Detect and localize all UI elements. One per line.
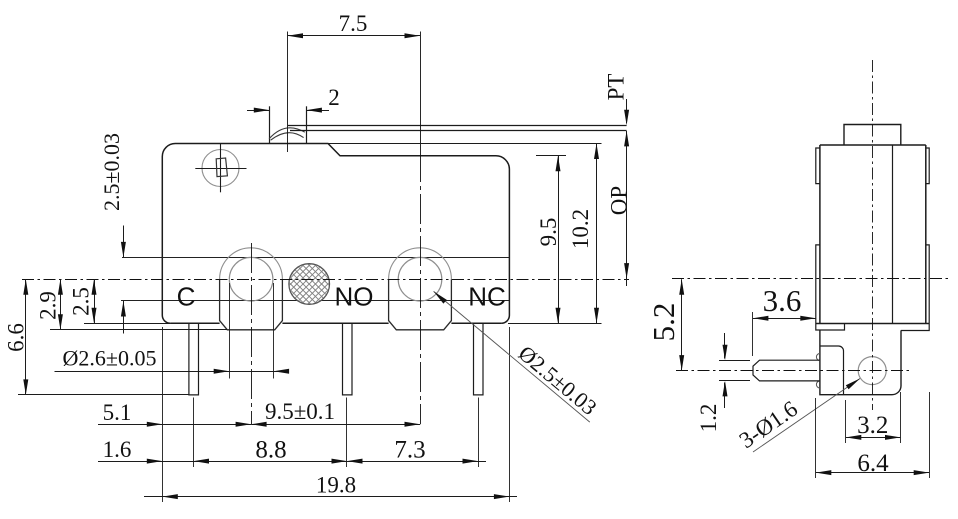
ext line rivet left edge — [229, 283, 231, 379]
dim 5.1 — [98, 424, 251, 426]
ext pin C center — [193, 398, 195, 468]
ext pin NC center — [478, 398, 480, 468]
ext line lobe bottom — [50, 329, 227, 331]
dim 10.2 vertical — [596, 144, 598, 324]
ext line body top right — [536, 155, 566, 157]
lever arm (free and operating position lines) — [288, 125, 627, 127]
pin NC — [474, 323, 484, 395]
pin NO — [343, 323, 353, 395]
dim 2.5 — [94, 279, 96, 323]
dim PT — [626, 99, 628, 123]
side tab upper left — [816, 148, 820, 184]
side tab lower right with lobe strip — [901, 245, 929, 331]
svg-text:9.5: 9.5 — [536, 218, 561, 247]
side bottom block — [820, 330, 901, 395]
dim 9.5 vertical — [558, 156, 560, 323]
dim 3.2 — [846, 437, 901, 439]
ext pin NO center — [346, 398, 348, 468]
svg-text:5.1: 5.1 — [103, 400, 132, 425]
dim 1.2 — [724, 333, 726, 359]
pin centerline — [676, 370, 910, 372]
body bottom edge segments — [170, 322, 219, 324]
svg-text:7.3: 7.3 — [394, 436, 425, 463]
svg-text:10.2: 10.2 — [568, 209, 593, 249]
crosshatched hole — [289, 264, 330, 305]
dim 2 — [247, 110, 269, 112]
dim 5.2 — [681, 279, 683, 370]
pin seat bumps — [816, 354, 820, 361]
dim 2.5+-0.03 (band height) — [123, 226, 125, 258]
plunger button — [269, 106, 271, 143]
svg-text:1.2: 1.2 — [696, 404, 721, 433]
side horizontal centerline — [672, 278, 951, 280]
dim 9.5+-0.1 — [251, 424, 420, 426]
svg-text:19.8: 19.8 — [316, 473, 356, 498]
ext line body top left level — [328, 143, 602, 145]
C vertical centerline — [251, 243, 253, 424]
terminal hole — [858, 357, 886, 385]
svg-text:3.2: 3.2 — [857, 412, 888, 439]
svg-text:NC: NC — [468, 282, 506, 312]
svg-text:PT: PT — [604, 74, 629, 101]
terminal lobe C — [220, 248, 283, 279]
side tab upper right — [926, 148, 929, 184]
svg-text:C: C — [177, 282, 196, 312]
side view body bottom edge — [816, 323, 929, 325]
side view pin — [753, 360, 820, 381]
ext line rivet right edge — [273, 283, 275, 379]
svg-text:NO: NO — [335, 282, 374, 312]
ext line pin bottom — [18, 394, 189, 396]
terminal lobe NO — [389, 248, 452, 279]
svg-text:2: 2 — [328, 85, 340, 110]
svg-text:2.5: 2.5 — [69, 287, 94, 316]
svg-text:3.6: 3.6 — [763, 283, 802, 318]
svg-text:6.6: 6.6 — [4, 323, 29, 352]
side view body — [820, 145, 926, 324]
dim 19.8 — [144, 496, 517, 498]
svg-text:Ø2.6±0.05: Ø2.6±0.05 — [63, 345, 157, 370]
svg-text:9.5±0.1: 9.5±0.1 — [265, 399, 335, 424]
horizontal centerline — [22, 279, 629, 281]
screw head — [202, 150, 239, 187]
pin C — [189, 323, 199, 395]
svg-text:OP: OP — [607, 186, 632, 215]
dims 1.6 / 8.8 / 7.3 — [98, 461, 486, 463]
dim 7.5 — [288, 35, 421, 37]
side vertical centerline — [872, 60, 874, 410]
dim dia2.6+-0.05 — [55, 371, 288, 373]
dim 6.4 — [816, 472, 929, 474]
NO vertical centerline — [420, 32, 422, 153]
terminal band bottom line — [121, 300, 298, 302]
ext pin tip — [752, 312, 754, 356]
dim 6.6 — [25, 279, 27, 395]
svg-text:5.2: 5.2 — [646, 303, 681, 342]
svg-text:8.8: 8.8 — [255, 436, 286, 463]
rivet circle C (dia 2.6) — [229, 257, 273, 301]
svg-text:7.5: 7.5 — [339, 11, 368, 36]
ext body right edge — [509, 327, 511, 502]
dim 2.9 — [60, 279, 62, 330]
side tab lower left with lobe strip — [816, 245, 845, 330]
ext body left edge — [162, 327, 164, 502]
dim OP — [624, 263, 629, 279]
side view inner edge — [892, 145, 894, 324]
rivet circle NO (dia 2.5) — [398, 257, 442, 301]
terminal band top line — [122, 257, 509, 259]
svg-text:2.5±0.03: 2.5±0.03 — [99, 133, 124, 211]
svg-text:2.9: 2.9 — [36, 291, 61, 320]
leader 3-dia1.6 — [753, 379, 860, 453]
plunger vertical centerline — [287, 32, 289, 153]
dim 3.6 — [753, 318, 816, 320]
svg-text:6.4: 6.4 — [857, 450, 889, 477]
switch body (front view) — [162, 144, 509, 324]
leader dia2.5+-0.03 to NO rivet — [434, 291, 590, 422]
ext line body bottom left — [84, 323, 170, 325]
svg-text:1.6: 1.6 — [103, 437, 132, 462]
ext line body bottom right — [508, 323, 602, 325]
side view plunger cap — [844, 125, 901, 146]
